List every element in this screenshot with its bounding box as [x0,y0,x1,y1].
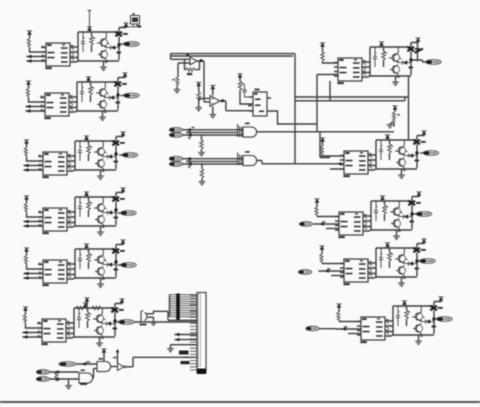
resistor R16 input pull-up [320,43,338,64]
buffer U17 [111,349,133,370]
wire bundle [170,294,198,321]
resistor R21 [55,373,58,382]
input connector P14 [298,270,311,275]
resistor R62 [92,306,101,310]
AND gate U10A [243,123,257,138]
wires P21/P22 [50,370,79,380]
input connector P20 [59,362,76,367]
jumper JP1 [140,311,154,326]
capacitor C91 [242,84,249,97]
output connector J11 [423,60,442,65]
resistor R11 [188,127,195,139]
wire J6 to connector [134,321,197,323]
wire U9 output [271,111,317,124]
driver block U4 [24,188,126,236]
label smudge row2 [181,361,190,364]
driver block U12 [340,131,427,179]
wires P3/P4 to gate [183,153,243,166]
diode D11 [415,49,424,53]
resistor R72 with ground [172,63,180,93]
wire J11 link [411,41,423,63]
output connector J6 [116,320,135,325]
wires P1/P2 to gate [183,124,243,137]
input connector P13 [299,222,312,227]
driver block U13 [314,192,422,240]
output connector J3 [119,153,138,158]
power stub P16 [101,349,106,362]
driver block U14 [319,239,427,287]
resistor R14 with ground [199,164,206,185]
driver block U15 [336,297,444,345]
input connector P1 [169,128,182,133]
resistor R61 [76,298,90,310]
page frame bottom rule [0,401,480,403]
resistor R15 with ground [387,106,400,128]
wire op-amp2 to U9 [226,101,253,111]
input connector P4 [169,162,182,167]
AND gate U16A [79,369,97,384]
output connector J5 [118,263,137,268]
header connector J20 [197,293,206,375]
output connector J12 [420,151,439,156]
driver block U11 [334,38,421,86]
power stub L1 [88,11,92,27]
resistor R91 [237,74,249,105]
input connector P15 [306,326,336,331]
input connector P22 [36,377,49,382]
op-amp U7 [171,53,205,65]
crystal box Y1 [122,13,141,28]
driver block U6 [23,299,125,347]
wire pin B [175,338,198,341]
ground G82 [209,107,216,118]
driver block U1 [27,23,129,71]
wire op-amp top rail [171,54,296,102]
wire chain to connector [133,357,197,366]
wire vertical feed [317,75,338,132]
power stub P72 [210,85,215,96]
input connector P21 [36,370,49,375]
input connector P3 [169,156,182,161]
wire pin A [175,333,198,336]
AND gate U10B [243,151,257,166]
resistor R22 with ground [65,379,72,389]
label smudge row3 [184,357,190,359]
wire bus A [295,54,409,164]
timer U9 [248,89,271,117]
resistor R71 feedback [185,59,200,75]
resistor R12 with ground [198,135,205,156]
wire gate1 output [257,132,394,158]
label smudge row1 [179,351,189,355]
output connector J13 [413,212,432,217]
driver block U3 [24,132,126,180]
output connector J1 [121,42,140,47]
resistor R13 [188,160,191,169]
driver block U2 [26,73,128,121]
wire pin C with ground [167,345,197,352]
input connector P2 [169,133,182,138]
output connector J4 [118,211,137,216]
ground GJP [150,317,157,325]
label smudge gate1 [80,383,87,385]
wire gate2 output [257,161,344,170]
wire JP1 to connector [154,311,198,320]
connector pin stubs [190,296,197,370]
output connector J14 [417,259,436,264]
driver block U5 [24,240,126,288]
output connector J2 [121,93,140,98]
wire bus B [295,81,405,101]
resistor R17 input pull-up [320,138,344,166]
power stub P71 [195,82,210,111]
output connector J15 [434,317,453,322]
AND gate U16B [97,358,111,372]
wire P20 to gate [76,361,97,365]
op-amp U8 [204,96,226,107]
